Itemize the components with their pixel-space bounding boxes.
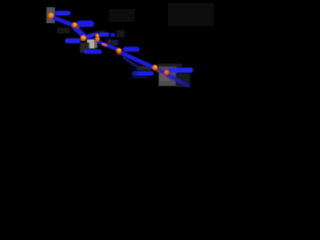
faint dark area around tail	[176, 73, 190, 87]
bar N6 (right of P5)	[123, 47, 140, 52]
red bit below P5	[117, 52, 120, 55]
bond P4-P5	[99, 42, 118, 50]
atom P6	[152, 65, 158, 71]
tail bond from P7 fading	[168, 75, 188, 85]
gray square behind P7	[159, 67, 177, 86]
dark strip above bar8	[158, 64, 182, 68]
dark square below P3	[80, 43, 89, 53]
dark patch above bar7	[137, 66, 152, 71]
atom P1	[48, 13, 54, 19]
bar N4b (small segment)	[110, 33, 115, 37]
bar N3 (left of P3)	[65, 38, 81, 43]
bar N7 (left-below P6)	[132, 71, 153, 76]
orange half-bond on P4-P5	[103, 44, 106, 46]
bar N1 (right of P1)	[55, 11, 71, 16]
gray column behind atom P1	[46, 7, 55, 23]
gray square bright core near P7	[160, 71, 171, 82]
bar N8 (right of P7, brightest)	[169, 68, 193, 73]
atom P5	[116, 48, 122, 54]
red bit right of P6	[157, 69, 160, 72]
bar N5 (below, horizontal)	[84, 49, 102, 54]
bond P3 up-right	[86, 34, 96, 37]
dark bond P3-P4	[87, 37, 95, 41]
atom P2	[72, 22, 78, 28]
light gray square near P4	[87, 39, 95, 48]
faint parallel bond below P5-P6	[124, 58, 137, 67]
bond P6-P7	[157, 69, 165, 72]
red bit below P2	[77, 26, 80, 29]
faint dark patch below A1-A2 bond	[57, 28, 70, 34]
bar N7 dark left tip	[132, 72, 136, 76]
bar N2 (right of P2, thick)	[77, 21, 94, 27]
faint smear below bar7	[134, 76, 148, 79]
faint dark patch top-right	[168, 3, 214, 26]
atom P7 (reddish)	[163, 70, 169, 76]
atom P4	[95, 36, 100, 42]
bond P5-P6	[121, 53, 153, 67]
faint dark patch top-middle	[109, 9, 135, 22]
bond P1-P2	[53, 17, 74, 25]
bar N4a (right of P4 top)	[99, 32, 110, 36]
atom P3	[80, 35, 86, 41]
bond P2-P3	[75, 27, 85, 37]
dark navy patch right of P4	[111, 40, 118, 46]
medium gray strip right of light square	[95, 40, 98, 49]
atom P4 upper lobe	[95, 34, 99, 39]
dark bluish square right of P4	[108, 39, 111, 44]
faint dark patch below A4 cluster	[95, 31, 105, 37]
faint dark patch right of bar4	[117, 30, 125, 38]
